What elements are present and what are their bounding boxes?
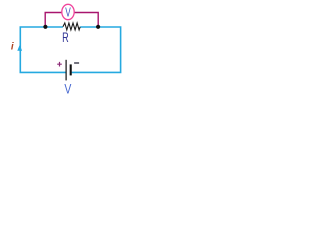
voltmeter U1 (circle)	[62, 4, 74, 19]
svg-text:i: i	[11, 42, 14, 53]
node B (right junction dot)	[96, 25, 100, 29]
svg-text:V: V	[64, 81, 71, 95]
svg-text:V: V	[65, 5, 71, 19]
wire main loop left (top-left segment, left riser, bottom-left segment)	[20, 27, 65, 72]
battery + sign	[57, 62, 62, 67]
wire voltmeter left lead (magenta)	[45, 13, 62, 27]
svg-text:R: R	[62, 30, 69, 45]
battery positive plate (long)	[65, 60, 67, 81]
current arrow i (on left wire, pointing up)	[17, 45, 22, 51]
wire voltmeter right lead (magenta)	[74, 13, 98, 27]
resistor R (zigzag)	[63, 23, 80, 30]
battery - sign	[74, 62, 79, 64]
node A (left junction dot)	[43, 25, 47, 29]
wire main loop right (top-right segment, right riser, bottom-right segment)	[72, 27, 121, 72]
battery negative plate (short)	[70, 64, 72, 75]
